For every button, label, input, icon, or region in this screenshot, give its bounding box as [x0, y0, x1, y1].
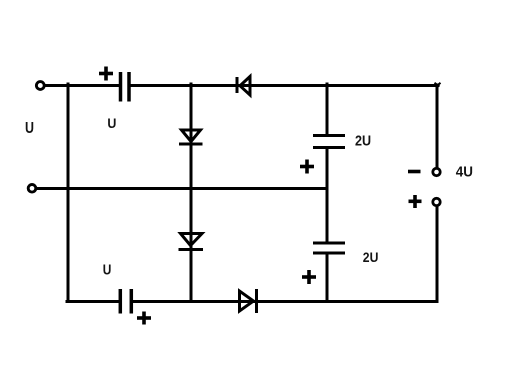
svg-text:2U: 2U — [355, 133, 371, 149]
svg-text:U: U — [107, 115, 116, 131]
svg-text:U: U — [25, 120, 34, 137]
svg-text:4U: 4U — [456, 163, 473, 180]
svg-text:2U: 2U — [363, 249, 379, 265]
svg-text:U: U — [103, 262, 112, 278]
